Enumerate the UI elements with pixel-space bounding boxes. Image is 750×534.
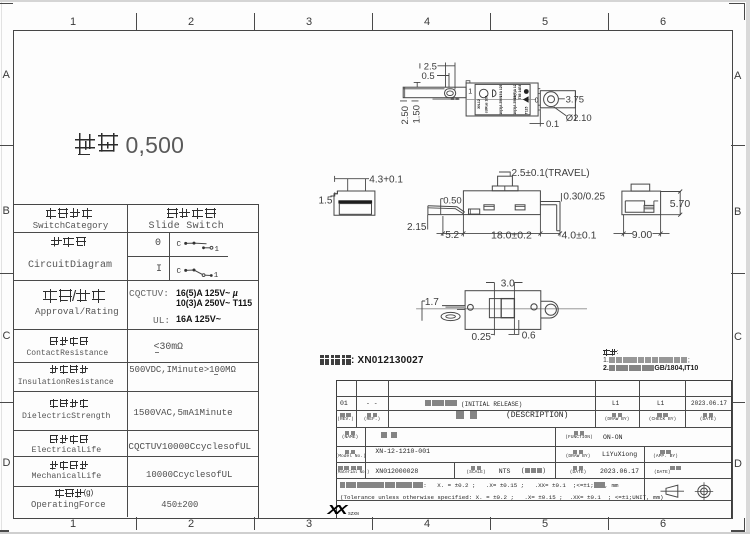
tolerance row line2 bbox=[340, 494, 664, 501]
row9: operating force bbox=[55, 489, 93, 498]
svg-text:2.5±0.1(TRAVEL): 2.5±0.1(TRAVEL) bbox=[512, 168, 590, 179]
svg-text:2.15: 2.15 bbox=[407, 222, 427, 233]
svg-text:10(3)A 250V: 10(3)A 250V bbox=[499, 95, 503, 115]
title block horizontal lines bbox=[336, 396, 731, 397]
detail inner face bbox=[339, 204, 371, 215]
zone tick marks right bbox=[731, 145, 745, 146]
svg-text:C: C bbox=[177, 268, 182, 276]
svg-text:1.50: 1.50 bbox=[411, 105, 422, 124]
svg-text:0.30/0.25: 0.30/0.25 bbox=[563, 191, 605, 202]
wire I bbox=[186, 270, 212, 276]
zone tick marks left bbox=[0, 145, 13, 146]
scale note: 比例 0,500 bbox=[75, 133, 118, 155]
front body bbox=[463, 191, 540, 215]
target symbol bbox=[698, 485, 710, 497]
dim 1.5 leader bbox=[331, 192, 335, 196]
dim 9.00 bbox=[614, 215, 670, 237]
svg-text:1: 1 bbox=[215, 246, 220, 254]
actuator arm (front) bbox=[428, 206, 465, 213]
knob stem bbox=[498, 176, 513, 186]
name row bbox=[336, 431, 365, 441]
dim 4.3+0.1 bbox=[335, 178, 369, 180]
row6: dielectric strength bbox=[50, 399, 89, 408]
svg-text:0.1: 0.1 bbox=[546, 119, 559, 130]
title block vertical lines bbox=[356, 380, 357, 426]
logo SZXN bbox=[328, 503, 344, 518]
dim 0.50 bbox=[441, 199, 444, 214]
zone numbers bottom bbox=[70, 518, 76, 530]
svg-text:9.00: 9.00 bbox=[632, 229, 653, 241]
body centre line bbox=[466, 98, 536, 100]
row8: mechanical life bbox=[50, 461, 89, 470]
photo gray margins bbox=[0, 0, 750, 2]
dim dia 2.10 bbox=[554, 107, 567, 116]
dim 0.1 bbox=[530, 109, 545, 127]
svg-text:Ø2.10: Ø2.10 bbox=[566, 113, 592, 124]
row2: circuit diagram bbox=[51, 237, 86, 247]
table column divider bbox=[127, 204, 128, 518]
centre line bbox=[416, 308, 587, 310]
zone numbers top bbox=[70, 16, 76, 28]
row1: switch category bbox=[46, 208, 93, 219]
model row bbox=[336, 450, 365, 460]
knob base bbox=[492, 186, 518, 191]
circuit row sub dividers bbox=[169, 232, 170, 281]
svg-text:0.5: 0.5 bbox=[422, 71, 435, 82]
top view body bbox=[466, 83, 538, 116]
circuit diagram position I bbox=[177, 268, 219, 280]
svg-text:1: 1 bbox=[214, 272, 219, 280]
dim 2.15 bbox=[427, 215, 429, 230]
slider window bbox=[489, 299, 514, 318]
side inner profile bbox=[625, 201, 644, 212]
marking circle bbox=[479, 89, 488, 98]
svg-text:1.5: 1.5 bbox=[319, 196, 333, 207]
zone tick marks bottom bbox=[136, 517, 137, 530]
tolerance row line1 bbox=[340, 482, 618, 489]
svg-text:0.50: 0.50 bbox=[443, 196, 462, 207]
top view actuator arm bbox=[403, 87, 466, 98]
svg-text:5.70: 5.70 bbox=[670, 198, 691, 210]
row4: contact resistance bbox=[50, 337, 89, 346]
pivot hole left bbox=[468, 304, 474, 310]
svg-text:T115: T115 bbox=[525, 107, 529, 115]
material row bbox=[336, 466, 365, 476]
marking D shape bbox=[493, 90, 497, 97]
svg-text:3.75: 3.75 bbox=[566, 95, 585, 106]
mounting ear bbox=[540, 91, 575, 108]
terminal tab A bbox=[484, 205, 494, 210]
pivot hole right bbox=[531, 304, 537, 310]
right terminal leg bbox=[540, 202, 560, 231]
outer sheet border remnants bbox=[0, 3, 13, 4]
svg-text:0: 0 bbox=[535, 98, 539, 105]
row7: electrical life bbox=[50, 435, 89, 444]
bottom dimension line bbox=[437, 232, 561, 234]
inner bracket bbox=[469, 209, 480, 214]
dim travel bbox=[499, 172, 510, 176]
wire 0 lower contact bbox=[204, 247, 212, 249]
svg-text:XN-12: XN-12 bbox=[477, 99, 481, 109]
svg-text:4.3+0.1: 4.3+0.1 bbox=[369, 175, 403, 186]
arm loop bbox=[441, 312, 460, 320]
dim 1.7 bbox=[422, 301, 425, 321]
svg-text:C: C bbox=[177, 241, 182, 249]
notes 要求 bbox=[603, 349, 618, 356]
dim 3.0 bbox=[494, 283, 514, 336]
svg-text:3.0: 3.0 bbox=[501, 279, 515, 290]
svg-text:5.2: 5.2 bbox=[445, 230, 459, 241]
cone symbol bbox=[666, 485, 678, 497]
zone letters right bbox=[734, 70, 741, 82]
svg-text:0.25: 0.25 bbox=[472, 332, 492, 343]
detail body outline bbox=[334, 191, 375, 215]
dim 2.5 (top) bbox=[420, 63, 455, 90]
side knob tab bbox=[631, 184, 650, 191]
dim 5.70 bbox=[661, 192, 681, 215]
svg-text:4.0±0.1: 4.0±0.1 bbox=[562, 230, 597, 242]
svg-text:10(3)A 250V~: 10(3)A 250V~ bbox=[513, 94, 517, 115]
rev row: 01 | -- | initial release | L1 L1 date bbox=[340, 400, 348, 407]
dim 0.25 bbox=[491, 333, 495, 335]
ear (bottom view) bbox=[541, 301, 558, 318]
material number heading bbox=[320, 355, 351, 365]
arm (bottom view) bbox=[442, 306, 465, 310]
svg-text:2.50: 2.50 bbox=[400, 106, 411, 125]
svg-text:1: 1 bbox=[468, 89, 472, 96]
side body bbox=[622, 191, 661, 215]
dim 0.5 (top) bbox=[437, 73, 449, 87]
row5: insulation resistance bbox=[50, 365, 89, 374]
dim 0.6 bbox=[509, 320, 519, 335]
terminal tab B bbox=[515, 205, 525, 210]
header row: REV REF DESCRIPTION DRAWBY CHECKBY DATE bbox=[336, 413, 356, 423]
bottom body bbox=[465, 291, 541, 330]
svg-text:0.6: 0.6 bbox=[522, 331, 536, 342]
arm slot bbox=[445, 89, 456, 98]
detail slider dark band bbox=[338, 200, 372, 203]
svg-text:18.0±0.2: 18.0±0.2 bbox=[491, 230, 532, 242]
row3: approval/rating bbox=[43, 289, 105, 304]
svg-text:T85 14E4: T85 14E4 bbox=[518, 84, 522, 99]
svg-text:1.7: 1.7 bbox=[425, 297, 439, 308]
table row lines bbox=[13, 232, 259, 233]
zone tick marks top bbox=[136, 13, 137, 30]
wire 0 upper bbox=[186, 242, 207, 245]
zone letters left bbox=[3, 69, 10, 81]
dim 0.30/0.25 bbox=[560, 193, 562, 202]
dim 3.75 bbox=[559, 91, 576, 121]
arm shadow bbox=[433, 98, 460, 100]
table outer border bbox=[13, 204, 260, 520]
svg-text:cURus 10A: cURus 10A bbox=[485, 95, 489, 113]
circuit diagram position 0 bbox=[177, 241, 220, 254]
